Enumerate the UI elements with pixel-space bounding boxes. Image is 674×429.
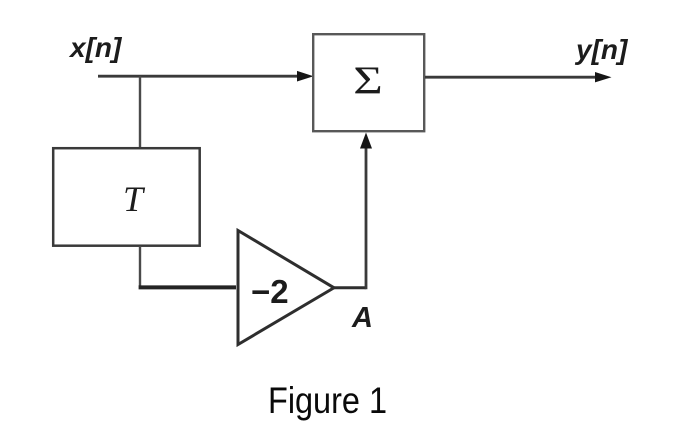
amplifier gain -2 triangle [238, 231, 334, 345]
wire horizontal into amplifier [139, 285, 236, 289]
block T (delay) [53, 148, 200, 246]
block summer [313, 34, 424, 131]
svg-text:Σ: Σ [353, 59, 383, 102]
wire input horizontal x[n] to summer [98, 75, 298, 78]
wire amplifier output to corner [334, 286, 366, 289]
arrowhead into summer left [297, 71, 314, 82]
arrowhead output [595, 72, 612, 82]
svg-text:A: A [351, 302, 373, 334]
svg-text:−2: −2 [251, 273, 289, 310]
wire junction down to T block [139, 76, 141, 148]
svg-text:y[n]: y[n] [574, 34, 629, 65]
svg-text:T: T [123, 179, 146, 219]
wire output summer to y[n] [425, 76, 597, 79]
wire vertical up into summer [365, 148, 368, 289]
svg-text:x[n]: x[n] [68, 32, 123, 63]
wire T bottom down [139, 246, 141, 286]
arrowhead into summer bottom [360, 133, 372, 149]
svg-text:Figure 1: Figure 1 [268, 380, 387, 421]
